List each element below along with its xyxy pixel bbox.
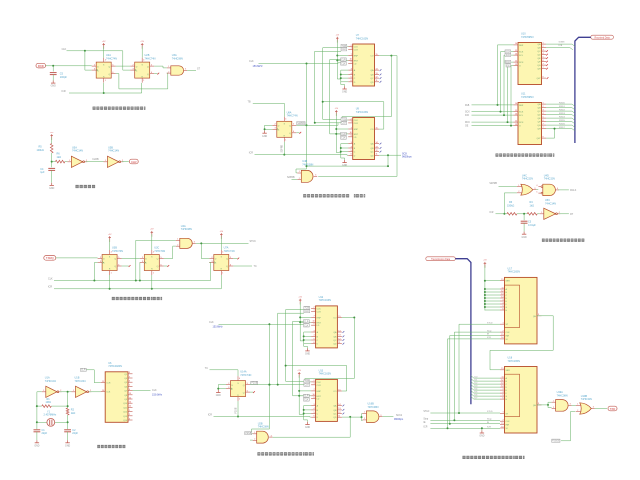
- svg-text:GND: GND: [34, 445, 39, 447]
- no-connect U2B QB: [157, 73, 159, 75]
- svg-text:RXD3: RXD3: [559, 113, 566, 115]
- wire ICR horizontal: [69, 92, 142, 94]
- schmitt inverter U5A: [67, 156, 87, 167]
- junction: [387, 165, 389, 167]
- AND gate U4D with inverted inputs: [536, 184, 559, 195]
- svg-text:9: 9: [314, 324, 315, 326]
- svg-text:2: 2: [502, 420, 503, 422]
- svg-text:ICR: ICR: [208, 413, 212, 416]
- wire cross link: [307, 165, 389, 167]
- svg-text:2: 2: [254, 439, 255, 441]
- svg-text:QH: QH: [537, 129, 541, 131]
- svg-text:CLR: CLR: [304, 396, 309, 398]
- svg-text:14: 14: [515, 43, 517, 45]
- junction: [51, 161, 53, 163]
- svg-text:7: 7: [351, 127, 352, 129]
- svg-text:RXD7: RXD7: [559, 127, 566, 129]
- port TXRQ: [44, 256, 56, 261]
- wire U1B out to U6 clock: [89, 391, 101, 393]
- wire U3C Q to U4A input B: [164, 246, 176, 258]
- port RXD: [36, 63, 46, 68]
- svg-text:10: 10: [515, 113, 517, 115]
- svg-text:3: 3: [351, 142, 352, 144]
- svg-text:CLK: CLK: [62, 48, 67, 51]
- svg-text:9: 9: [543, 136, 544, 138]
- unbuffered inverter U1B: [72, 386, 92, 397]
- wire tie upper: [548, 401, 552, 403]
- wire +5V rail U9: [335, 113, 337, 152]
- svg-text:2: 2: [553, 407, 554, 409]
- junction: [453, 419, 455, 421]
- svg-text:6: 6: [557, 188, 558, 190]
- net flag ICR at U10: [505, 53, 511, 57]
- wire RxB into U11: [472, 104, 514, 106]
- caption serial clock generation circuit (transmit): [257, 452, 314, 455]
- wire U11 QH* up: [546, 129, 555, 139]
- svg-text:ENP: ENP: [354, 56, 359, 58]
- svg-text:1: 1: [314, 383, 315, 385]
- wire right oscillator rail upper: [67, 392, 69, 408]
- svg-text:74HCU04: 74HCU04: [75, 380, 87, 383]
- svg-text:11: 11: [502, 376, 504, 378]
- svg-text:9: 9: [314, 397, 315, 399]
- svg-text:5: 5: [502, 305, 503, 307]
- wire U2A Q to U2B D: [116, 65, 131, 67]
- svg-text:4: 4: [351, 146, 352, 148]
- wire to U12 A: [304, 331, 311, 333]
- wire rail to U12 ENT: [300, 321, 311, 323]
- no-connect U10 QH*: [547, 77, 549, 79]
- svg-text:74HC595N: 74HC595N: [521, 36, 534, 39]
- svg-text:SER: SER: [506, 281, 511, 283]
- junction: [335, 128, 337, 130]
- svg-text:1: 1: [73, 390, 74, 392]
- wire +5V to U7A preset: [220, 236, 222, 250]
- svg-text:Stop: Stop: [423, 418, 428, 421]
- svg-text:CLR: CLR: [317, 385, 322, 387]
- svg-text:2: 2: [129, 414, 130, 416]
- svg-text:6: 6: [351, 154, 352, 156]
- wire C5 to GND: [52, 75, 54, 81]
- wire CLR ladder: [330, 60, 341, 134]
- junction: [103, 92, 105, 94]
- svg-text:Q: Q: [289, 133, 291, 135]
- svg-text:CO: CO: [333, 391, 337, 393]
- no-connect U10 QD: [546, 54, 548, 56]
- label CLK input: [249, 60, 263, 68]
- svg-text:RCK: RCK: [519, 122, 524, 124]
- svg-text:INH: INH: [506, 336, 510, 338]
- svg-text:CLR: CLR: [106, 383, 111, 385]
- svg-text:5: 5: [314, 338, 315, 340]
- +5V at U9: [334, 108, 338, 116]
- wire rail jog: [337, 78, 341, 80]
- wire to U12 C: [304, 339, 311, 341]
- wire to U13 B: [304, 409, 311, 411]
- svg-text:3: 3: [315, 175, 316, 177]
- svg-text:6: 6: [151, 72, 152, 74]
- svg-text:3: 3: [502, 388, 503, 390]
- svg-text:CLR: CLR: [304, 321, 309, 323]
- wire +5V to R5: [51, 138, 53, 144]
- svg-text:12: 12: [501, 379, 503, 381]
- svg-text:CLK: CLK: [341, 138, 346, 140]
- svg-text:3: 3: [543, 109, 544, 111]
- wire RxB up to U10: [498, 45, 514, 105]
- flip-flop U8A: [272, 117, 296, 142]
- wire U10 QB to bus: [546, 48, 573, 50]
- svg-text:10: 10: [102, 390, 104, 392]
- wire to U9 C: [341, 151, 348, 153]
- svg-text:153.6kHz: 153.6kHz: [152, 393, 163, 396]
- svg-text:6: 6: [502, 397, 503, 399]
- svg-text:74HC4020N: 74HC4020N: [108, 365, 122, 368]
- svg-text:2: 2: [314, 380, 315, 382]
- svg-text:6: 6: [543, 60, 544, 62]
- svg-text:Q: Q: [108, 74, 110, 76]
- label U4B: [302, 160, 313, 166]
- svg-text:15: 15: [501, 368, 503, 370]
- svg-text:1: 1: [553, 400, 554, 402]
- wire CLK row box1: [314, 51, 341, 53]
- wire bus branch D7 to U18: [471, 397, 500, 399]
- AND gate U4B: [297, 170, 317, 182]
- wire U12 CO out: [342, 317, 354, 319]
- svg-text:QC: QC: [333, 340, 337, 342]
- svg-text:3: 3: [212, 261, 213, 263]
- junction: [458, 412, 460, 414]
- svg-text:QD: QD: [537, 115, 541, 117]
- wire U11 QE to bus: [546, 118, 575, 120]
- svg-text:4: 4: [351, 73, 352, 75]
- svg-text:2: 2: [100, 257, 101, 259]
- wire bus branch D6 to U18: [471, 394, 500, 396]
- svg-text:1μF: 1μF: [40, 171, 45, 174]
- wire ICR to U7A clear: [220, 275, 222, 289]
- svg-text:ENP: ENP: [354, 129, 359, 131]
- svg-text:6: 6: [118, 264, 119, 266]
- junction: [353, 317, 355, 319]
- wire mid link to gen box2: [269, 384, 304, 386]
- svg-text:12: 12: [376, 150, 378, 152]
- svg-text:Q: Q: [243, 385, 245, 387]
- wire tie U19A inputs: [548, 402, 552, 407]
- wire to U13 A: [304, 405, 311, 407]
- wire U2A clear down: [103, 83, 105, 93]
- svg-text:1: 1: [105, 80, 106, 82]
- svg-text:Q: Q: [157, 259, 159, 261]
- wire TCB row box1: [323, 47, 341, 49]
- flip-flop U2B: [130, 58, 154, 83]
- svg-text:10: 10: [312, 321, 314, 323]
- capacitor C5: [50, 73, 57, 75]
- svg-text:13: 13: [501, 293, 503, 295]
- wire U6 Q7 CLK output: [133, 390, 151, 392]
- net flag TCB at U9: [341, 118, 347, 122]
- svg-text:74HC74N: 74HC74N: [287, 115, 298, 118]
- wire U5C output RT: [559, 213, 569, 215]
- ground at U13: [305, 422, 310, 429]
- svg-text:CLR: CLR: [341, 59, 346, 61]
- svg-text:CLK: CLK: [342, 49, 347, 51]
- wire +5V rail U13: [298, 375, 300, 414]
- bus Transmission Data: [455, 259, 471, 405]
- svg-text:Received Data: Received Data: [595, 36, 611, 39]
- svg-text:10: 10: [501, 426, 503, 428]
- resistor R1: [42, 405, 52, 408]
- svg-text:2: 2: [168, 71, 169, 73]
- wire to U16B input B: [362, 417, 363, 421]
- wire ICR rail: [54, 288, 221, 290]
- wire U3C QB stub: [164, 265, 168, 267]
- wire IE up to U17: [450, 336, 500, 424]
- svg-text:CLK: CLK: [342, 123, 347, 125]
- wire +5V to U2B preset: [141, 46, 143, 57]
- AND gate U2B: [253, 431, 273, 443]
- wire rail to U9 ENT: [336, 133, 348, 135]
- junction: [503, 114, 505, 116]
- svg-text:SCK: SCK: [519, 52, 524, 54]
- wire U14A clock tie: [218, 388, 226, 390]
- port CLR: [129, 159, 138, 164]
- junction: [322, 101, 324, 103]
- svg-text:SOB8: SOB8: [559, 42, 566, 44]
- svg-text:3: 3: [314, 330, 315, 332]
- wire U2B Q to U3A input A: [154, 66, 167, 68]
- svg-text:S2PRB: S2PRB: [282, 144, 284, 152]
- net flag S2PRB at U8A: [297, 122, 305, 126]
- wire U8A QB stub: [296, 132, 299, 134]
- label U14A: [240, 371, 251, 377]
- svg-text:3: 3: [275, 128, 276, 130]
- svg-text:15: 15: [501, 334, 503, 336]
- svg-text:4: 4: [239, 378, 240, 380]
- net flag P2SOE: [552, 439, 560, 443]
- wire Stop to U18: [430, 419, 500, 421]
- svg-text:QD: QD: [333, 417, 337, 419]
- svg-text:1: 1: [314, 310, 315, 312]
- svg-text:CLK: CLK: [48, 278, 53, 281]
- svg-text:S2PRB: S2PRB: [297, 123, 305, 125]
- svg-text:2: 2: [543, 106, 544, 108]
- wire to U7 B: [341, 74, 348, 76]
- AND gate U3A: [167, 66, 187, 75]
- svg-text:153.6kHz: 153.6kHz: [213, 326, 224, 329]
- label SCK2 output: [394, 415, 404, 421]
- svg-text:6: 6: [293, 131, 294, 133]
- wire RXD to U2A D: [46, 65, 92, 67]
- junction: [500, 111, 502, 113]
- wire SCK up to U10: [501, 52, 514, 112]
- svg-text:14: 14: [129, 402, 131, 404]
- svg-text:2: 2: [299, 178, 300, 180]
- +5V at U7: [335, 35, 339, 43]
- svg-text:QD: QD: [370, 82, 374, 84]
- shift register U11: [514, 102, 547, 144]
- capacitor C4: [48, 168, 55, 170]
- junction: [484, 280, 486, 282]
- wire into U2B input B: [250, 439, 253, 441]
- svg-text:7: 7: [314, 389, 315, 391]
- svg-text:9: 9: [543, 76, 544, 78]
- resistor R6: [55, 160, 65, 163]
- wire U4B output loop: [318, 56, 397, 177]
- svg-text:7: 7: [543, 123, 544, 125]
- svg-text:TXRQ: TXRQ: [46, 256, 55, 260]
- ground: [34, 440, 39, 447]
- port Received Data: [591, 35, 614, 39]
- junction: [151, 288, 153, 290]
- svg-text:11: 11: [338, 342, 340, 344]
- wire U13 CO TCB loop: [286, 366, 347, 391]
- svg-text:13: 13: [515, 124, 517, 126]
- +5V at U2A: [102, 41, 106, 49]
- svg-text:1: 1: [577, 404, 578, 406]
- svg-text:13: 13: [338, 408, 340, 410]
- ground: [65, 440, 70, 447]
- svg-text:9: 9: [351, 62, 352, 64]
- svg-text:7: 7: [129, 376, 130, 378]
- svg-text:74HC08N: 74HC08N: [368, 406, 379, 409]
- wire rail to U1A input: [37, 391, 42, 393]
- svg-text:S2PRB: S2PRB: [489, 183, 497, 185]
- wire rail to U9 ENP: [336, 128, 348, 130]
- label U3A: [172, 54, 183, 60]
- svg-text:74HC163N: 74HC163N: [356, 37, 369, 40]
- svg-text:5: 5: [247, 383, 248, 385]
- svg-text:15: 15: [501, 279, 503, 281]
- net flag TCB at U7: [341, 44, 347, 48]
- svg-text:P2SOE: P2SOE: [552, 441, 560, 443]
- svg-text:1: 1: [239, 399, 240, 401]
- svg-text:2: 2: [212, 257, 213, 259]
- no-connect U14A QB: [253, 391, 255, 393]
- svg-text:3: 3: [570, 404, 571, 406]
- no-connect U9 QA: [380, 143, 382, 145]
- junction: [93, 280, 95, 282]
- svg-text:QH*: QH*: [537, 138, 541, 140]
- svg-text:RCK: RCK: [519, 62, 524, 64]
- svg-text:14: 14: [376, 68, 378, 70]
- label U4C: [522, 174, 533, 180]
- junction: [523, 213, 525, 215]
- svg-text:6: 6: [351, 80, 352, 82]
- wire Stop up to U17: [454, 332, 500, 420]
- wire TC to U14A preset: [210, 370, 239, 376]
- svg-text:Q: Q: [108, 66, 110, 68]
- wire R5 to C4: [51, 153, 53, 167]
- svg-text:5: 5: [543, 56, 544, 58]
- label SCK output: [402, 152, 412, 158]
- svg-text:ICR: ICR: [48, 286, 52, 289]
- svg-text:4: 4: [543, 113, 544, 115]
- svg-text:11: 11: [515, 50, 517, 52]
- svg-text:GND: GND: [216, 395, 221, 397]
- no-connect U12 QD: [343, 343, 345, 345]
- label CLK input F: [209, 321, 223, 329]
- ground at U18: [479, 430, 484, 437]
- wire +5V rail: [484, 265, 486, 310]
- svg-text:153.6kHz: 153.6kHz: [253, 65, 264, 68]
- svg-text:QD: QD: [370, 155, 374, 157]
- svg-text:CO: CO: [370, 129, 374, 131]
- junction: [340, 74, 342, 76]
- bus Received Data: [575, 37, 591, 143]
- svg-text:TXD: TXD: [610, 407, 616, 411]
- svg-text:QD: QD: [537, 55, 541, 57]
- wire rail to R1: [37, 405, 42, 407]
- svg-text:12: 12: [515, 120, 517, 122]
- svg-text:22pF: 22pF: [42, 432, 48, 435]
- label U10: [521, 33, 534, 39]
- counter U12A: [311, 306, 342, 348]
- no-connect U12 QA: [343, 331, 345, 333]
- svg-text:74HCU04: 74HCU04: [45, 380, 57, 383]
- +5V at U3B: [108, 234, 112, 242]
- junction: [306, 124, 308, 126]
- wire into U4B input B: [292, 179, 298, 181]
- svg-text:CLK: CLK: [354, 120, 359, 122]
- svg-text:5: 5: [118, 257, 119, 259]
- svg-text:3: 3: [271, 435, 272, 437]
- svg-text:10: 10: [501, 337, 503, 339]
- no-connect U12 QB: [343, 336, 345, 338]
- junction: [484, 306, 486, 308]
- wire CLK row gen box1: [278, 312, 304, 314]
- net name SOB: [559, 42, 566, 47]
- wire U9 CO TCB loop: [323, 102, 384, 129]
- svg-text:1: 1: [543, 102, 544, 104]
- svg-text:GND: GND: [342, 92, 347, 94]
- wire U9 QD to SCK: [379, 154, 401, 156]
- svg-text:1kΩ: 1kΩ: [530, 204, 535, 207]
- junction: [67, 405, 69, 407]
- label R4: [530, 201, 535, 207]
- svg-text:10: 10: [515, 53, 517, 55]
- no-connect U10 QH: [546, 68, 548, 70]
- svg-text:1: 1: [129, 410, 130, 412]
- svg-text:2: 2: [543, 46, 544, 48]
- flip-flop U14A: [226, 376, 250, 401]
- svg-text:CLK: CLK: [506, 332, 511, 334]
- junction: [135, 280, 137, 282]
- svg-text:11: 11: [102, 381, 104, 383]
- no-connect U10 QF: [546, 61, 548, 63]
- junction: [484, 297, 486, 299]
- svg-text:13: 13: [376, 73, 378, 75]
- wire rail to U17 F: [485, 303, 500, 305]
- no-connect U8A QB: [299, 132, 301, 134]
- caption start signal detection circuit (transmit): [112, 297, 162, 300]
- wire mid link to box2: [307, 123, 339, 126]
- net flag CLK at U9: [341, 121, 347, 125]
- no-connect U10 QE: [546, 57, 548, 59]
- junction: [283, 154, 285, 156]
- wire +5V to U3B preset: [109, 239, 111, 250]
- svg-text:3: 3: [543, 49, 544, 51]
- svg-text:RCK: RCK: [465, 122, 470, 124]
- svg-text:CLK: CLK: [506, 421, 511, 423]
- label U5A: [72, 146, 83, 152]
- wire CLK down to U2B input A: [252, 324, 270, 433]
- svg-text:P2SB: P2SB: [235, 407, 237, 413]
- junction: [335, 133, 337, 135]
- wire rail jog U13: [299, 413, 304, 415]
- wire to U9 A: [341, 143, 348, 145]
- svg-text:7: 7: [543, 63, 544, 65]
- wire U4D output RCLK: [558, 189, 569, 191]
- svg-text:ENP: ENP: [317, 317, 322, 319]
